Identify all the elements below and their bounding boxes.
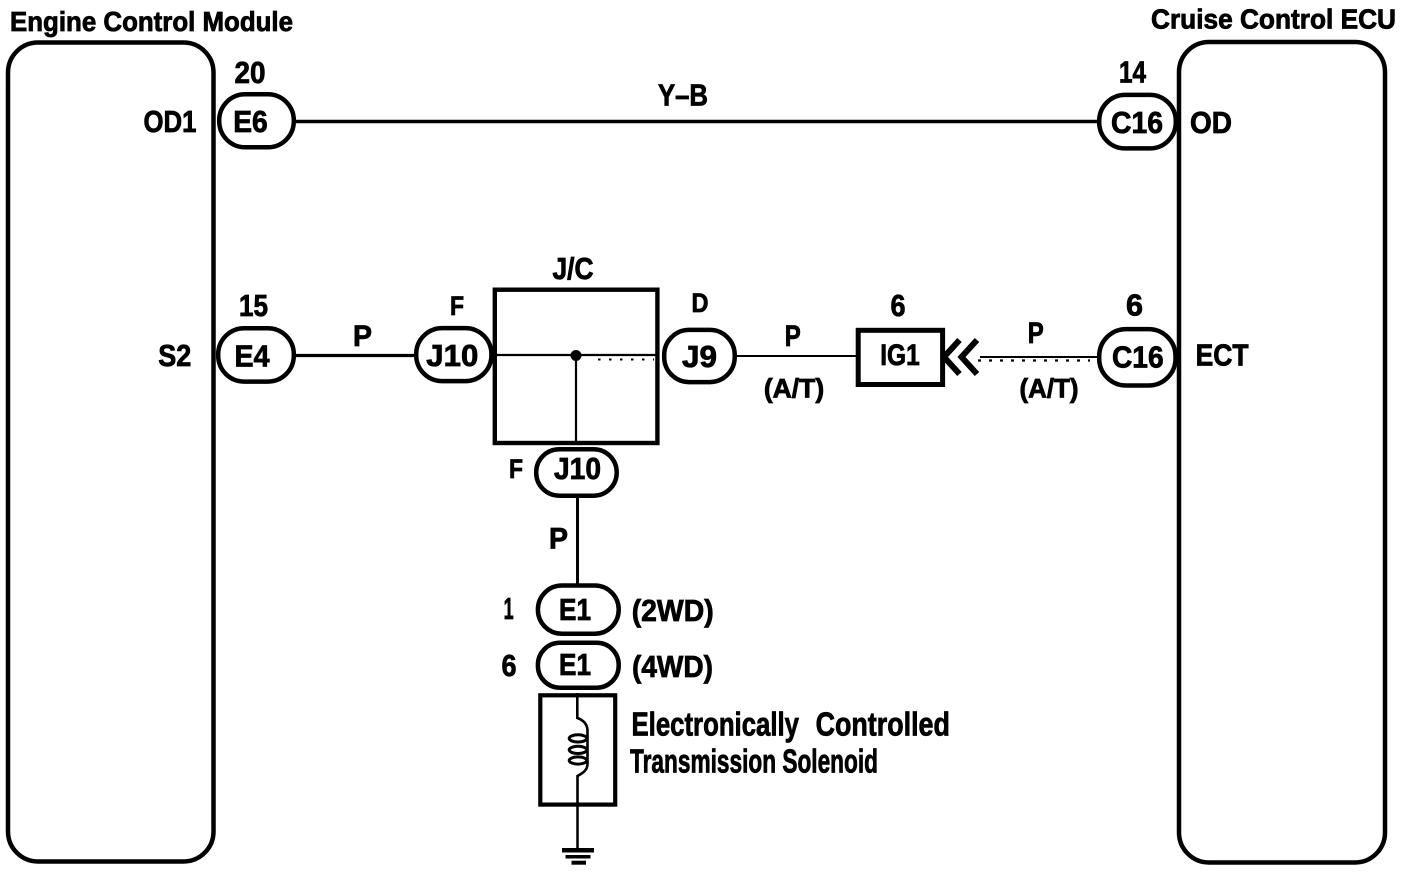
svg-text:P: P [785, 320, 801, 353]
svg-text:Controlled: Controlled [816, 706, 950, 743]
connector C16 (OD) [1099, 95, 1176, 148]
wire Y-B from E6 to C16 [295, 120, 1099, 123]
svg-text:Engine Control Module: Engine Control Module [10, 6, 293, 37]
svg-text:6: 6 [502, 648, 517, 683]
fuse IG1 box [858, 330, 942, 384]
svg-text:Cruise Control ECU: Cruise Control ECU [1151, 4, 1396, 35]
ground [562, 850, 594, 863]
svg-text:P: P [549, 523, 568, 556]
connector C16 (ECT) [1099, 329, 1175, 385]
connector J10 lower [536, 449, 617, 496]
wire J10 to E1 [576, 496, 579, 585]
connector J10 [416, 328, 491, 381]
wire J9 to IG1 [736, 355, 856, 357]
solenoid coil L1 [569, 693, 587, 806]
connector E6 [219, 94, 294, 147]
connector J9 [664, 330, 735, 382]
svg-text:(2WD): (2WD) [632, 593, 714, 628]
svg-text:E1: E1 [559, 592, 591, 627]
junction node dot [571, 350, 582, 361]
svg-text:20: 20 [235, 55, 266, 90]
svg-text:Transmission Solenoid: Transmission Solenoid [630, 743, 878, 780]
junction connector J/C box [495, 290, 658, 443]
svg-text:P: P [1028, 317, 1044, 350]
svg-text:F: F [509, 454, 523, 484]
svg-text:14: 14 [1119, 55, 1147, 90]
svg-text:(4WD): (4WD) [632, 649, 713, 684]
svg-text:S2: S2 [158, 338, 191, 373]
svg-text:J9: J9 [682, 339, 717, 374]
svg-text:E1: E1 [559, 647, 591, 682]
svg-text:C16: C16 [1112, 340, 1164, 375]
wire chevrons to C16 [980, 356, 1097, 358]
svg-text:J10: J10 [554, 451, 601, 486]
svg-text:J10: J10 [426, 338, 478, 373]
svg-text:15: 15 [239, 288, 268, 323]
wire inside J/C horizontal [496, 354, 656, 356]
connector E4 [218, 328, 294, 381]
connector E1 (4WD) [538, 643, 619, 688]
svg-text:(A/T): (A/T) [764, 374, 824, 404]
svg-text:Electronically: Electronically [632, 706, 800, 743]
svg-text:D: D [692, 288, 709, 318]
arrow chevrons [944, 340, 960, 374]
svg-text:P: P [353, 320, 372, 353]
connector E1 (2WD) [538, 586, 619, 634]
svg-text:Y–B: Y–B [658, 78, 708, 113]
svg-text:E4: E4 [235, 339, 271, 374]
transmission solenoid box [540, 695, 615, 804]
Cruise Control ECU box [1179, 42, 1385, 863]
svg-text:(A/T): (A/T) [1020, 374, 1079, 404]
svg-text:ECT: ECT [1196, 338, 1249, 373]
svg-text:IG1: IG1 [880, 339, 920, 372]
svg-text:OD1: OD1 [144, 104, 197, 139]
wire inside J/C vertical [575, 355, 577, 441]
dotted artifact inside J/C [598, 359, 654, 361]
svg-text:6: 6 [1126, 288, 1143, 323]
svg-text:OD: OD [1190, 105, 1232, 140]
svg-text:C16: C16 [1111, 105, 1163, 140]
Engine Control Module box [8, 43, 214, 862]
svg-text:6: 6 [891, 288, 906, 323]
wire solenoid to ground [576, 806, 579, 849]
wire E4 to J10 [294, 354, 417, 357]
svg-text:J/C: J/C [553, 251, 594, 286]
svg-text:1: 1 [504, 591, 514, 626]
svg-text:E6: E6 [233, 104, 268, 139]
svg-text:F: F [450, 291, 464, 321]
dotted artifact under wire [978, 359, 1090, 361]
